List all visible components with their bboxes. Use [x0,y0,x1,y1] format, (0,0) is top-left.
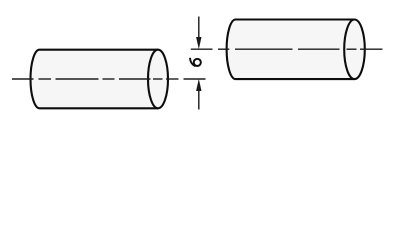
dimension arrowhead, bottom (points up) [196,79,201,91]
pin 1 (left cylinder) body fill [31,50,159,109]
pin 2 body outline [227,20,355,80]
dimension leader line, top [198,17,200,39]
dimension arrowhead, top (points down) [196,37,201,49]
pin 1 front face ellipse [148,50,168,109]
dimension extension tick, top (extends pin 2 axis) [191,48,213,50]
pin 1 body outline [31,50,159,109]
dimension value "6" (rotated, reads from right): loop [194,59,201,66]
pin 2 centerline (dash-dot axis) [218,48,383,50]
pin 1 centerline (dash-dot axis) [12,78,179,80]
pin 2 front face ellipse [344,20,365,80]
pin 2 (right cylinder) body fill [227,20,355,80]
dimension leader line, bottom [198,90,200,110]
dimension extension tick, bottom (extends pin 1 axis) [184,78,206,80]
dimension value "6": stem curl [190,58,195,67]
